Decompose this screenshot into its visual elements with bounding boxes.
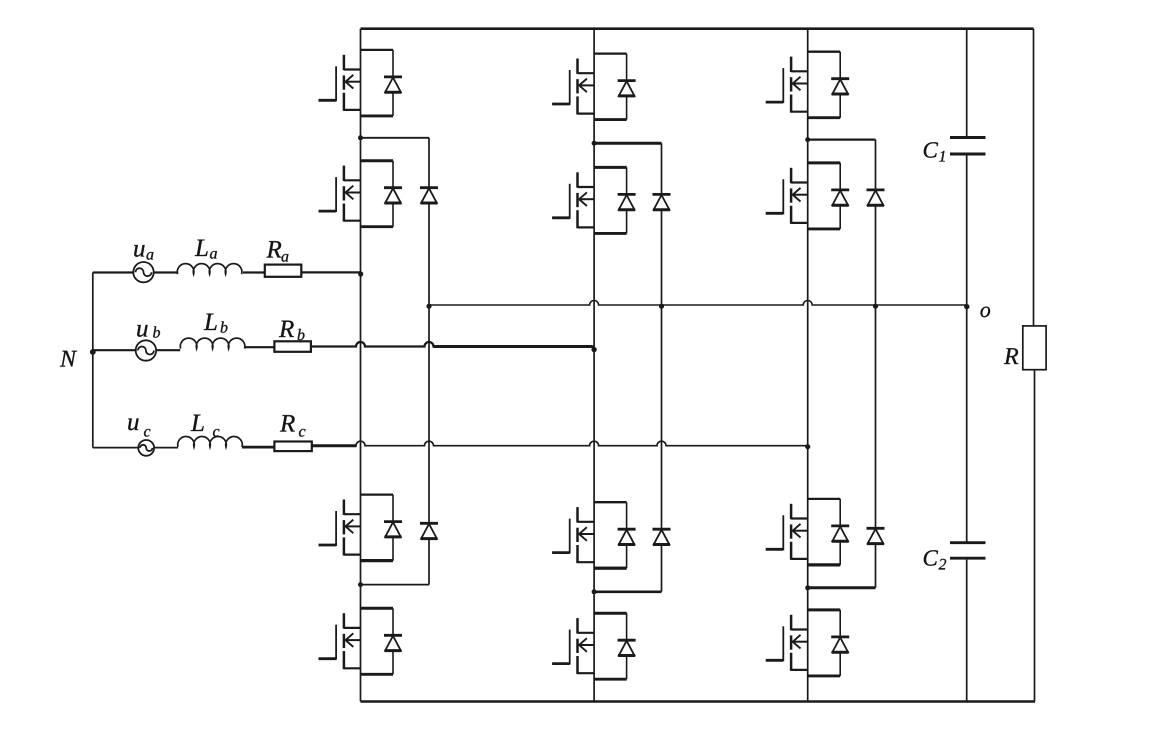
wire: phase c thick segment bbox=[312, 444, 357, 447]
wire: neutral o line bbox=[429, 301, 967, 306]
transistor S1a (leg a top) bbox=[319, 50, 403, 116]
wire: leg b clamp vertical bbox=[661, 143, 663, 592]
wire: leg a main vertical bbox=[360, 29, 362, 702]
wire: leg b main vertical bbox=[593, 29, 595, 702]
label La bbox=[195, 240, 217, 259]
wire: bottom DC bus bbox=[361, 700, 1036, 703]
wire: leg b upper clamp junction bbox=[594, 142, 661, 145]
node: leg b lower junction dot bbox=[592, 589, 597, 594]
node: o-line dot at leg c clamp bbox=[873, 304, 878, 309]
wire: leg c clamp vertical bbox=[875, 140, 877, 588]
capacitor C2 bbox=[950, 543, 986, 559]
node: phase b tap dot bbox=[591, 347, 596, 352]
transistor S3b bbox=[552, 502, 636, 568]
label Rb bbox=[279, 321, 305, 341]
wire: top DC bus bbox=[361, 27, 1034, 30]
inductor Lb bbox=[180, 338, 245, 349]
label Ra bbox=[266, 241, 288, 262]
node: N junction dot bbox=[90, 349, 96, 355]
node: leg b upper junction dot bbox=[592, 141, 597, 146]
wire: phase c inductor-to-resistor segment bbox=[242, 446, 274, 449]
label ub bbox=[137, 325, 160, 338]
clamp diode D2a bbox=[420, 523, 438, 538]
clamp diode D1b bbox=[653, 194, 671, 209]
label uc bbox=[128, 419, 150, 437]
label C1 bbox=[924, 142, 945, 161]
wire: load branch vertical lower bbox=[1034, 370, 1036, 702]
label R load bbox=[1004, 348, 1018, 364]
clamp diode D1c bbox=[867, 190, 885, 205]
transistor S4c bbox=[766, 610, 850, 676]
wire: leg c lower clamp junction bbox=[808, 586, 876, 589]
wire: leg b lower clamp junction bbox=[594, 590, 661, 593]
wire: S4 loop-top thick overlays bbox=[361, 608, 841, 613]
label N bbox=[60, 351, 77, 367]
wire: leg a clamp vertical bbox=[428, 138, 430, 585]
inductor Lc bbox=[178, 436, 243, 447]
clamp diode D2c bbox=[867, 528, 885, 543]
transistor S1c (leg c top) bbox=[766, 52, 850, 118]
transistor S2c bbox=[766, 163, 850, 229]
wire: S2 loop-top thick overlays bbox=[361, 161, 841, 168]
node: o-line dot at capacitor midpoint bbox=[964, 304, 969, 309]
label ua bbox=[134, 245, 153, 260]
clamp diode D2b bbox=[653, 529, 671, 544]
wire: leg a lower clamp junction bbox=[361, 584, 430, 586]
transistor S3a bbox=[319, 495, 403, 561]
inductor La bbox=[177, 264, 242, 275]
resistor Rb bbox=[274, 341, 311, 352]
wire: load branch vertical upper bbox=[1033, 29, 1035, 326]
resistor Ra bbox=[265, 265, 302, 277]
node: o-line dot at leg b clamp bbox=[659, 304, 664, 309]
label o bbox=[981, 307, 991, 318]
clamp diode D1a bbox=[420, 188, 438, 203]
wire: S3 loop-bottom thick overlays bbox=[361, 561, 841, 569]
wire: capacitor branch vertical middle bbox=[966, 155, 968, 542]
AC source ub bbox=[136, 340, 156, 360]
transistor S1b (leg b top) bbox=[552, 54, 636, 120]
transistor S2b bbox=[552, 167, 636, 233]
transistor S3c bbox=[766, 499, 850, 565]
node: phase c tap dot bbox=[805, 444, 810, 449]
wire: leg a upper clamp junction bbox=[361, 137, 430, 139]
transistor S2a bbox=[319, 161, 403, 227]
node: leg c upper junction dot bbox=[805, 137, 810, 142]
wire: capacitor branch vertical lower bbox=[966, 560, 968, 702]
label Lc bbox=[191, 415, 220, 437]
label C2 bbox=[924, 550, 946, 569]
resistor Rc bbox=[274, 442, 311, 452]
wire: left feeder vertical (N rail) bbox=[92, 273, 94, 448]
wire: phase a line bbox=[93, 271, 361, 273]
AC source uc bbox=[138, 440, 154, 456]
AC source ua bbox=[133, 262, 153, 282]
label Lb bbox=[204, 314, 228, 333]
wire: phase b line bbox=[93, 342, 594, 350]
wire: leg c upper clamp junction bbox=[808, 139, 876, 141]
wire: phase b thick segment bbox=[434, 345, 593, 348]
node: leg c lower junction dot bbox=[805, 585, 810, 590]
node: leg a lower junction dot bbox=[358, 582, 363, 587]
node: phase a tap dot bbox=[358, 271, 363, 276]
capacitor C1 bbox=[950, 138, 986, 155]
label Rc bbox=[280, 415, 306, 437]
transistor S4a bbox=[319, 608, 403, 674]
node: o-line dot at leg a clamp bbox=[426, 304, 431, 309]
wire: phase c line bbox=[93, 441, 808, 447]
wire: leg c main vertical bbox=[807, 29, 809, 702]
node: leg a upper junction dot bbox=[358, 135, 363, 140]
resistor R load bbox=[1023, 326, 1046, 370]
wire: capacitor branch vertical upper bbox=[966, 29, 968, 138]
transistor S4b bbox=[552, 613, 636, 679]
